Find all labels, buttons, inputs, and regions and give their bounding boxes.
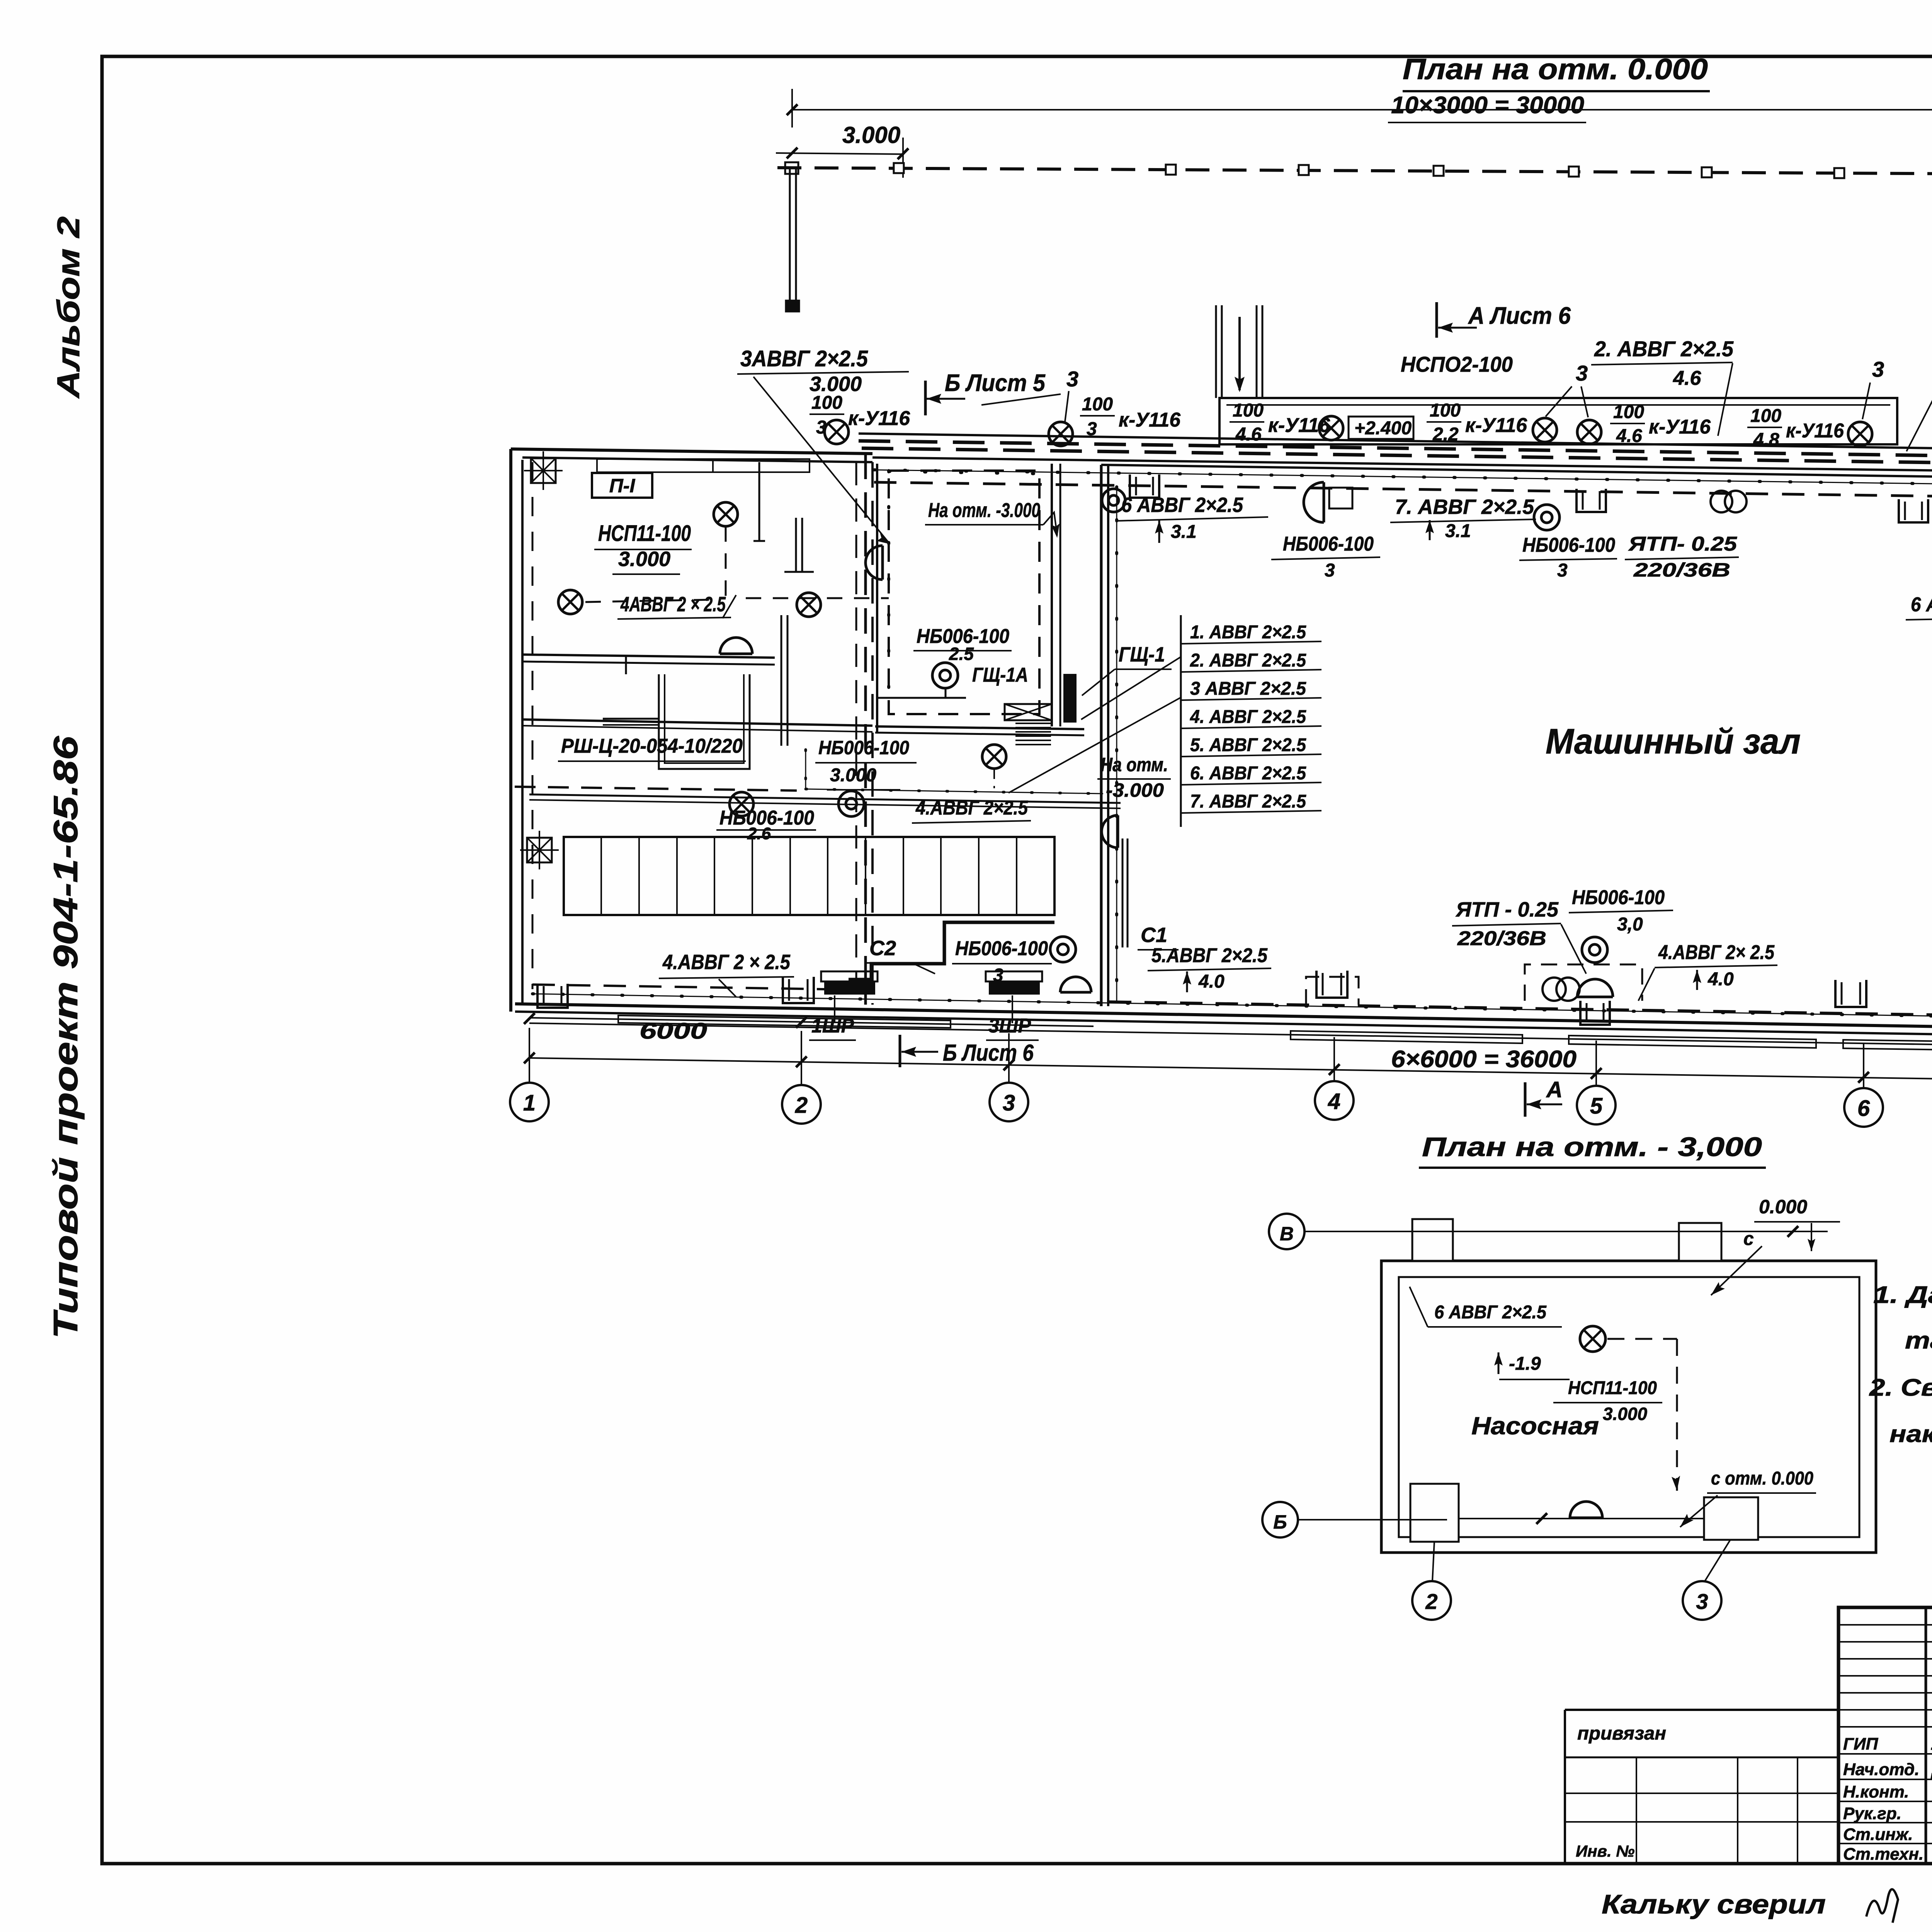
svg-text:6000: 6000 — [639, 1019, 707, 1044]
axis Б (pump plan) line — [1298, 1519, 1447, 1520]
lamp НБ006 above cells — [838, 791, 864, 816]
door line on bottom wall — [1459, 1518, 1704, 1519]
dome fixture with pocket on top wall — [1304, 482, 1324, 522]
top column notch left — [1412, 1219, 1453, 1261]
svg-text:220/36В: 220/36В — [1633, 559, 1730, 581]
hall left wall (double) — [1100, 465, 1103, 1006]
ventilation duct dropping into trough — [1215, 305, 1217, 398]
svg-text:2.5: 2.5 — [949, 644, 974, 664]
svg-text:ГИП: ГИП — [1843, 1735, 1879, 1753]
inner dashed line of corridor — [855, 462, 857, 1005]
partition y1700 in left block — [522, 655, 775, 658]
svg-text:Рук.гр.: Рук.гр. — [1843, 1804, 1901, 1823]
leader from 4АВВГ to dashed run — [723, 595, 736, 618]
svg-text:+2.400: +2.400 — [1354, 418, 1412, 439]
svg-text:Насосная: Насосная — [1471, 1412, 1599, 1440]
inner room bottom wall (double) — [875, 726, 1084, 729]
dome on door line — [1570, 1502, 1602, 1518]
slab segment box 1 — [1291, 1031, 1522, 1043]
svg-text:4.6: 4.6 — [1616, 426, 1642, 446]
column squares on 0.000 outline — [894, 163, 904, 173]
dashed cable along bottom (hall) — [1109, 1002, 1932, 1018]
С2 cable stepped route — [849, 922, 1054, 980]
svg-text:4.8: 4.8 — [1753, 430, 1779, 450]
svg-text:НСП11-100: НСП11-100 — [1568, 1378, 1657, 1398]
svg-text:7. АВВГ 2×2.5: 7. АВВГ 2×2.5 — [1395, 495, 1534, 519]
dashed outline of plan at 0.000 (upper building edge) — [777, 168, 1932, 175]
svg-text:2.2: 2.2 — [1432, 424, 1459, 445]
column box at axis 5 — [1580, 1001, 1610, 1025]
bottom column at axis 2 — [783, 977, 814, 1003]
svg-text:3: 3 — [1087, 419, 1097, 439]
tower / stack at top left of 0.000 plan — [789, 167, 791, 305]
svg-text:2: 2 — [1425, 1589, 1437, 1614]
slab segment box left — [618, 1015, 951, 1028]
svg-text:РШ-Ц-20-054-10/220: РШ-Ц-20-054-10/220 — [561, 735, 743, 757]
dome on hall left wall lower — [1102, 815, 1118, 848]
svg-text:3,0: 3,0 — [1617, 914, 1643, 935]
transformer symbol on top cable — [1711, 491, 1747, 512]
svg-text:Ст.инж.: Ст.инж. — [1843, 1825, 1913, 1844]
svg-text:100: 100 — [1082, 394, 1113, 415]
level mark +2.400 — [1349, 417, 1413, 439]
svg-text:3.000: 3.000 — [810, 372, 862, 396]
axis 4 circle — [1333, 1037, 1335, 1081]
dashed cable along bottom (left block) — [532, 985, 872, 990]
left columns verticals — [1925, 1607, 1927, 1864]
dashed drops between lamps — [725, 526, 727, 597]
axis 2 circle — [801, 1031, 802, 1085]
svg-text:6 АВВГ 2×2.5: 6 АВВГ 2×2.5 — [1434, 1302, 1547, 1323]
column notch near x2960 — [1130, 474, 1159, 498]
machine hall top wall: dashed band row 2 — [862, 448, 1932, 465]
svg-text:1: 1 — [523, 1090, 536, 1116]
dome at bottom wall right of НБ006 — [1060, 977, 1091, 992]
svg-text:План на отм. - 3,000: План на отм. - 3,000 — [1422, 1132, 1762, 1162]
vertical partition x2030 — [781, 615, 782, 746]
cable run with junction dots along top wall — [874, 470, 1932, 486]
lamp К-У116 at x2745 — [1049, 422, 1073, 446]
machine hall top wall: upper solid line — [859, 434, 1932, 451]
svg-text:3.1: 3.1 — [1445, 521, 1471, 541]
bottom wall lower solid line — [515, 1012, 1932, 1038]
lamp НБ006-100 3,0 — [1582, 937, 1607, 963]
svg-text:привязан: привязан — [1577, 1723, 1666, 1744]
lamp НБ006 bottom — [1050, 937, 1076, 962]
svg-text:НСП11-100: НСП11-100 — [598, 521, 691, 546]
column notch on top wall at axis 5 — [1577, 489, 1606, 512]
svg-text:3: 3 — [1066, 367, 1078, 391]
svg-text:3.000: 3.000 — [618, 548, 670, 571]
dashed cable from lamp — [1607, 1338, 1677, 1340]
svg-text:А: А — [1546, 1077, 1563, 1102]
cable list vertical line — [1180, 615, 1182, 827]
svg-text:3.000: 3.000 — [830, 765, 876, 786]
leader from 3АВВГ to corridor corner — [753, 377, 890, 544]
bottom-left column — [537, 984, 568, 1008]
dimension line 6000 (axes 1-2) — [529, 1018, 1094, 1026]
svg-text:3АВВГ 2×2.5: 3АВВГ 2×2.5 — [740, 346, 868, 371]
label -1.9 — [1494, 1352, 1503, 1374]
interior stub wall below П-I — [795, 518, 797, 572]
svg-text:4.АВВГ 2 × 2.5: 4.АВВГ 2 × 2.5 — [662, 951, 791, 974]
dashed cable rectangle inside room — [889, 471, 1039, 714]
svg-text:3.000: 3.000 — [1603, 1404, 1648, 1424]
svg-text:100: 100 — [1613, 402, 1644, 422]
section mark Б Лист 6 (bottom) — [899, 1035, 901, 1067]
svg-text:НБ006-100: НБ006-100 — [818, 737, 909, 759]
lamps in left block — [714, 502, 738, 526]
svg-text:Б Лист 5: Б Лист 5 — [945, 370, 1046, 396]
svg-text:2: 2 — [795, 1093, 808, 1118]
column notch near x4950 — [1899, 499, 1928, 522]
svg-text:-1.9: -1.9 — [1509, 1354, 1541, 1374]
svg-text:Б Лист 6: Б Лист 6 — [943, 1040, 1034, 1066]
dashed cable row below top wall — [874, 482, 1932, 499]
lamp below room — [982, 745, 1006, 769]
svg-text:к-У116: к-У116 — [1786, 420, 1844, 442]
svg-text:0.000: 0.000 — [1759, 1196, 1807, 1218]
svg-text:4.АВВГ 2× 2.5: 4.АВВГ 2× 2.5 — [1658, 941, 1775, 964]
closet walls (РШ room) — [659, 674, 750, 769]
left block outer left wall (double) — [509, 449, 512, 1012]
partition wall y1925 — [522, 719, 872, 726]
section mark Б Лист 5 — [924, 381, 927, 415]
door arc on inner room left wall — [866, 546, 883, 580]
svg-text:6: 6 — [1857, 1096, 1870, 1121]
svg-text:Типовой проект 904-1-65.8: Типовой проект 904-1-65.86 — [46, 736, 85, 1339]
axis В (pump plan) line — [1305, 1231, 1828, 1232]
axis Б (pump plan) circle — [1262, 1502, 1298, 1537]
dotted cable L from partition to hall — [804, 750, 807, 789]
section mark А Лист 6 — [1435, 302, 1438, 338]
svg-text:к-У116: к-У116 — [848, 407, 910, 430]
svg-text:100: 100 — [1430, 400, 1461, 421]
svg-text:4: 4 — [1328, 1089, 1340, 1114]
svg-text:С1: С1 — [1141, 923, 1167, 947]
svg-text:100: 100 — [1233, 400, 1264, 421]
small partition stub — [625, 657, 627, 674]
column with cross at top left corner — [524, 451, 563, 490]
corridor right wall of left block (dashed double) — [864, 454, 867, 1005]
svg-text:Нач.отд.: Нач.отд. — [1843, 1760, 1919, 1779]
svg-text:к-У116: к-У116 — [1268, 414, 1330, 437]
main dimension line 6x6000=36000 — [529, 1058, 1932, 1082]
band above cells (double line) — [529, 794, 1121, 803]
svg-text:2. АВВГ 2×2.5: 2. АВВГ 2×2.5 — [1594, 337, 1734, 361]
svg-text:4.0: 4.0 — [1708, 969, 1734, 990]
dotted cable run along bottom wall — [532, 994, 1932, 1019]
svg-text:2. АВВГ 2×2.5: 2. АВВГ 2×2.5 — [1190, 650, 1306, 671]
svg-text:с отм. 0.000: с отм. 0.000 — [1711, 1468, 1813, 1489]
svg-text:4.6: 4.6 — [1673, 367, 1701, 389]
dashed pocket rectangle — [1525, 964, 1642, 1001]
shelf line in room with fixture stem — [876, 697, 966, 699]
svg-text:На отм.: На отм. — [1100, 754, 1168, 776]
svg-text:5. АВВГ 2×2.5: 5. АВВГ 2×2.5 — [1190, 735, 1306, 755]
svg-text:10×3000 = 30000: 10×3000 = 30000 — [1391, 92, 1584, 119]
name rows — [1838, 1726, 1932, 1728]
svg-text:4АВВГ 2 × 2.5: 4АВВГ 2 × 2.5 — [620, 593, 726, 616]
svg-text:3.1: 3.1 — [1171, 522, 1197, 542]
svg-text:ЯТП- 0.25: ЯТП- 0.25 — [1628, 533, 1738, 555]
left block top wall (double) — [511, 449, 872, 454]
svg-text:-3.000: -3.000 — [1106, 779, 1164, 801]
machine hall top wall: lower solid line 1 — [872, 457, 1932, 473]
С1 cable vertical — [1122, 838, 1124, 947]
interior dashed cable along left wall — [532, 462, 534, 989]
hall interior dotted cable down left side — [1115, 487, 1118, 1001]
svg-text:Инв. №: Инв. № — [1576, 1842, 1634, 1860]
svg-text:220/36В: 220/36В — [1457, 927, 1546, 950]
svg-text:ЯТП - 0.25: ЯТП - 0.25 — [1455, 898, 1559, 921]
svg-text:6 АВВГ 2×2.5: 6 АВВГ 2×2.5 — [1911, 594, 1932, 616]
svg-text:3: 3 — [1576, 361, 1588, 385]
pump room inner wall — [1399, 1277, 1859, 1537]
dashed segment left of band — [515, 787, 797, 791]
tick on door line — [1536, 1513, 1547, 1524]
down arrow inside duct — [1238, 317, 1241, 390]
svg-text:6. АВВГ 2×2.5: 6. АВВГ 2×2.5 — [1190, 763, 1306, 784]
axis В (pump plan) circle — [1269, 1214, 1304, 1249]
floor slab line below bottom wall — [529, 1023, 1932, 1048]
title block outer — [1838, 1607, 1932, 1864]
axis 2 (pump plan) leader and circle — [1432, 1542, 1434, 1581]
black bar 1ШР — [821, 971, 878, 981]
svg-text:100: 100 — [1750, 406, 1781, 426]
svg-text:План на отм. 0.000: План на отм. 0.000 — [1403, 53, 1708, 86]
column notch at axis 4 — [1316, 971, 1347, 998]
svg-text:НБ006-100: НБ006-100 — [1572, 886, 1665, 909]
svg-text:4.АВВГ 2×2.5: 4.АВВГ 2×2.5 — [915, 797, 1028, 819]
svg-text:На отм. -3.000: На отм. -3.000 — [928, 499, 1040, 522]
svg-text:НБ006-100: НБ006-100 — [955, 937, 1048, 960]
svg-text:Альбом 2: Альбом 2 — [51, 216, 86, 399]
svg-text:НБ006-100: НБ006-100 — [1522, 534, 1615, 556]
svg-text:НБ006-100: НБ006-100 — [1283, 533, 1374, 555]
svg-text:А Лист 6: А Лист 6 — [1468, 303, 1571, 329]
machine hall top wall: dashed band row 1 — [859, 441, 1932, 458]
svg-text:2.6: 2.6 — [747, 824, 771, 843]
section mark А (bottom) — [1524, 1082, 1527, 1117]
svg-text:100: 100 — [811, 393, 842, 413]
svg-text:5.АВВГ 2×2.5: 5.АВВГ 2×2.5 — [1151, 944, 1268, 967]
svg-text:3: 3 — [1003, 1090, 1015, 1116]
lamp НБ006 on hall left wall top — [1102, 489, 1125, 512]
svg-text:6×6000 = 36000: 6×6000 = 36000 — [1391, 1046, 1577, 1073]
svg-text:Кальку сверил: Кальку сверил — [1602, 1889, 1826, 1919]
svg-text:Н.конт.: Н.конт. — [1843, 1782, 1909, 1801]
switch box with cross — [1005, 704, 1052, 720]
svg-text:П-I: П-I — [609, 475, 636, 497]
small tee symbols on top wall interior — [759, 462, 760, 541]
light trough box along top wall — [1219, 398, 1897, 444]
svg-text:3: 3 — [1872, 357, 1884, 381]
svg-text:2. Светильники НБ006-100 исп: 2. Светильники НБ006-100 использовать с … — [1869, 1374, 1932, 1401]
junction dots on room cable — [887, 471, 890, 714]
svg-text:1. Данный лист рассматриват: 1. Данный лист рассматривать совмест с л… — [1873, 1282, 1932, 1308]
svg-text:к-У116: к-У116 — [1465, 414, 1527, 437]
svg-text:5: 5 — [1590, 1094, 1603, 1119]
signature squiggle — [1866, 1889, 1898, 1923]
svg-text:3: 3 — [1325, 560, 1335, 581]
svg-text:накаливания мощностью 60 Вт.: накаливания мощностью 60 Вт. — [1889, 1421, 1932, 1447]
svg-text:НСПО2-100: НСПО2-100 — [1401, 352, 1513, 376]
bottom-right column — [1704, 1497, 1758, 1540]
svg-text:3: 3 — [1557, 560, 1568, 581]
transformer at axis 5 bottom — [1543, 978, 1580, 1001]
svg-text:3 АВВГ 2×2.5: 3 АВВГ 2×2.5 — [1190, 679, 1306, 699]
svg-text:Машинный зал: Машинный зал — [1546, 722, 1801, 761]
svg-text:4.0: 4.0 — [1198, 971, 1225, 992]
inner room right wall (double) — [1051, 464, 1053, 726]
svg-text:С2: С2 — [869, 937, 896, 960]
svg-text:В: В — [1280, 1223, 1294, 1245]
lamp НБ006 in room — [932, 663, 958, 688]
inner room left wall — [876, 464, 878, 733]
lamp in trough x3445 — [1319, 416, 1343, 440]
svg-text:3: 3 — [1696, 1589, 1708, 1614]
black bar 3ШР — [986, 971, 1042, 981]
dome fixture at axis 5 bottom — [1577, 979, 1613, 997]
svg-text:ГЩ-1А: ГЩ-1А — [972, 664, 1028, 686]
svg-text:с: с — [1743, 1229, 1754, 1249]
battery of cells (foundation row) — [564, 837, 1054, 915]
lamp in pump room — [1580, 1326, 1605, 1352]
axis 3 circle — [1008, 1033, 1010, 1083]
panel ГЩ-1А black bar — [1063, 674, 1077, 723]
svg-text:4.6: 4.6 — [1235, 424, 1262, 445]
svg-text:к-У116: к-У116 — [1649, 416, 1711, 438]
svg-text:4. АВВГ 2×2.5: 4. АВВГ 2×2.5 — [1190, 707, 1306, 727]
axis 5 circle — [1595, 1041, 1597, 1086]
ventilation box П-I — [592, 473, 652, 498]
axis 6 circle — [1863, 1044, 1864, 1088]
stairs hatch below — [1015, 723, 1051, 724]
lamp at x4814 — [1848, 422, 1872, 446]
slab segment box 2 — [1569, 1036, 1816, 1048]
dashed jog around axis4 column — [1306, 977, 1359, 1005]
bottom wall upper solid line — [515, 1004, 1932, 1030]
lamp К-У116 at x2165 — [825, 420, 849, 444]
svg-text:Б: Б — [1273, 1511, 1287, 1533]
leaders from list to panel — [1081, 657, 1181, 719]
svg-text:ГЩ-1: ГЩ-1 — [1119, 643, 1165, 666]
svg-text:3: 3 — [816, 417, 827, 438]
привязан small table — [1565, 1709, 1838, 1711]
pump room outer wall — [1381, 1261, 1876, 1553]
column notch at axis 6 — [1835, 980, 1866, 1007]
machine hall top wall: lower solid line 2 — [1101, 465, 1932, 480]
axis 1 circle — [529, 1028, 530, 1083]
slab segment box 3 — [1843, 1040, 1932, 1052]
top column notch right — [1679, 1223, 1721, 1261]
half-dome fixture on partition — [720, 638, 752, 654]
svg-text:к-У116: к-У116 — [1119, 409, 1181, 431]
svg-text:7. АВВГ 2×2.5: 7. АВВГ 2×2.5 — [1190, 791, 1306, 812]
svg-text:1. АВВГ 2×2.5: 1. АВВГ 2×2.5 — [1190, 622, 1306, 643]
column with cross at mid left wall — [520, 831, 559, 869]
svg-text:1ШР: 1ШР — [811, 1015, 854, 1037]
lamp НБ006 below 7АВВГ — [1534, 505, 1560, 530]
lamps pair near axis 5 top — [1533, 418, 1557, 442]
svg-text:Ст.техн.: Ст.техн. — [1843, 1845, 1923, 1864]
top dimension line — [792, 109, 1932, 111]
svg-text:3.000: 3.000 — [842, 122, 900, 148]
bottom-left column — [1410, 1484, 1459, 1542]
thin rows top-left part — [1838, 1624, 1932, 1626]
top wall pocket (thin rectangle) — [597, 459, 810, 472]
svg-text:тами ЭО-6,8.: тами ЭО-6,8. — [1905, 1327, 1932, 1354]
axis 3 (pump plan) leader and circle — [1705, 1540, 1730, 1581]
